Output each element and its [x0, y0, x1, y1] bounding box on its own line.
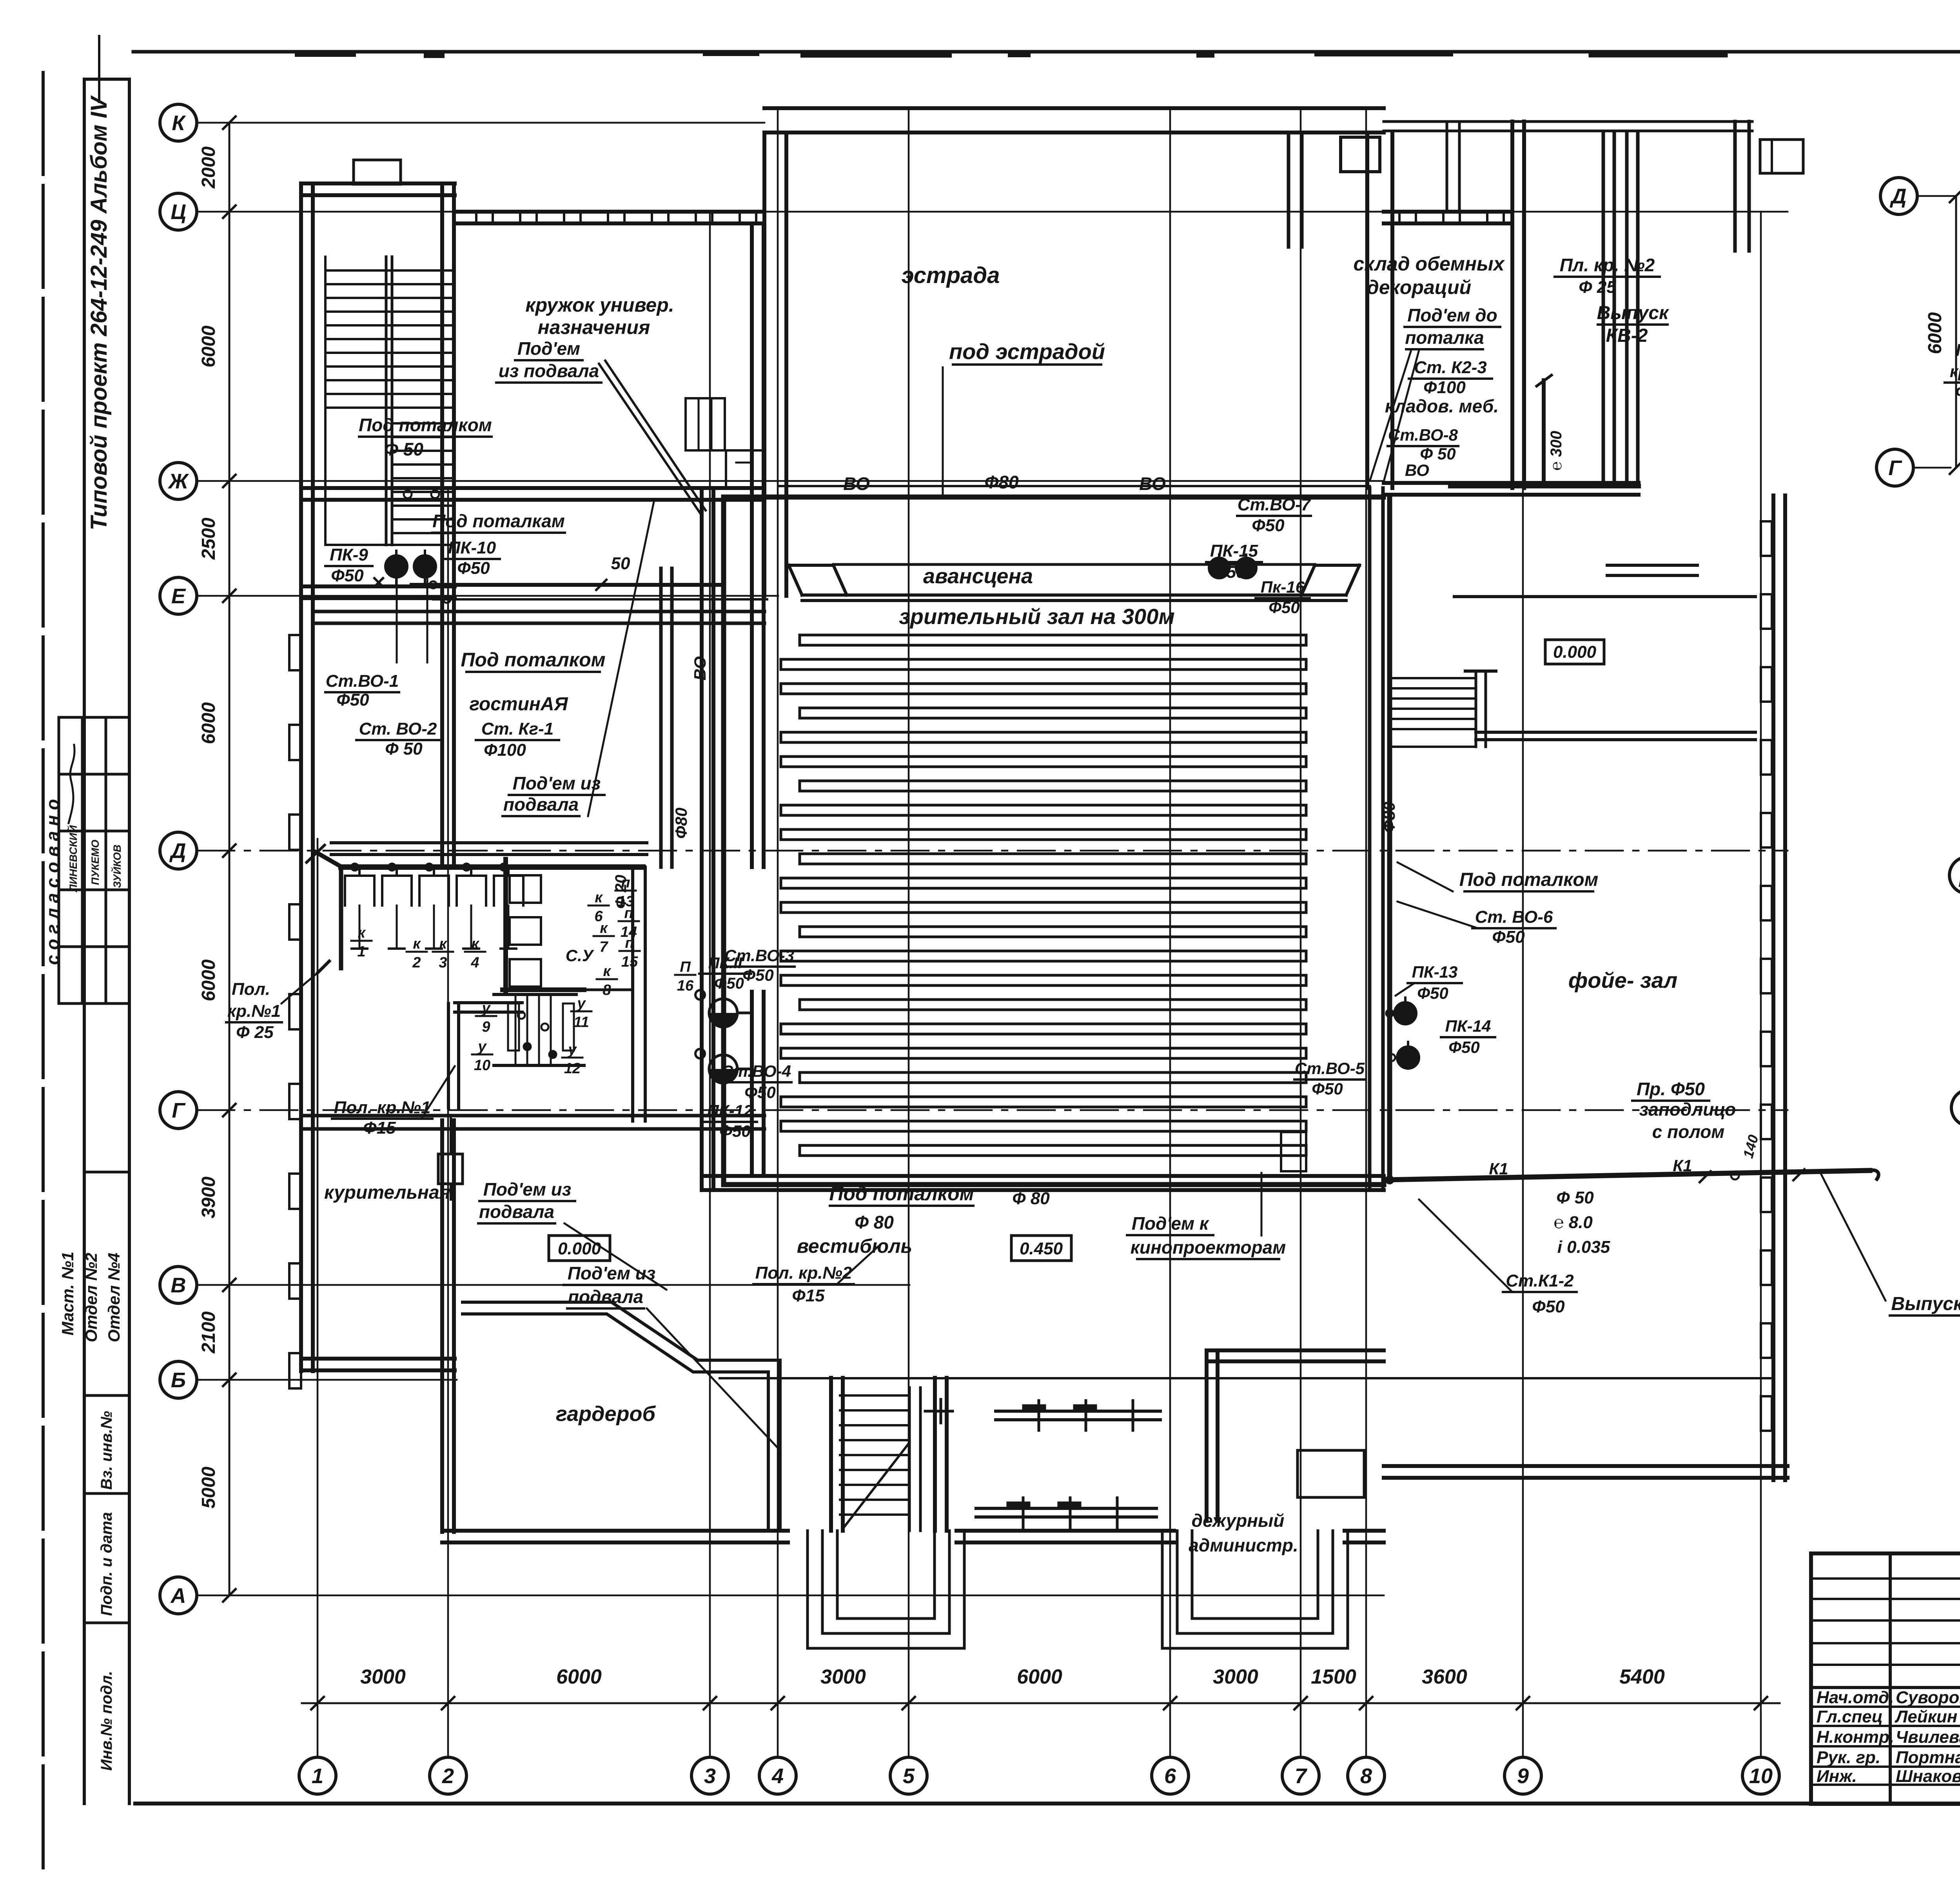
svg-text:Пк-16: Пк-16 [1261, 578, 1305, 596]
axis column 2 [430, 488, 466, 1794]
svg-text:8: 8 [1360, 1764, 1372, 1788]
left column rules [84, 79, 129, 1804]
label VO right [1139, 474, 1166, 494]
svg-text:Нач.отд.: Нач.отд. [1817, 1688, 1894, 1707]
svg-text:ПК-15: ПК-15 [1210, 541, 1258, 561]
svg-text:Выпуск К1-3: Выпуск К1-3 [1891, 1294, 1960, 1314]
avanscena front [789, 565, 1359, 601]
label PK-10 [444, 538, 500, 578]
svg-text:2000: 2000 [198, 146, 219, 189]
svg-text:4: 4 [470, 954, 479, 971]
label pod potolkom E [1397, 862, 1598, 891]
svg-text:курительная: курительная [324, 1182, 450, 1203]
svg-text:Д: Д [1959, 864, 1960, 887]
label 0450 box [1011, 1236, 1071, 1261]
svg-text:Ф15: Ф15 [363, 1118, 396, 1138]
svg-text:Ф 50: Ф 50 [384, 439, 423, 459]
svg-text:Ф100: Ф100 [1423, 378, 1466, 397]
label Pl kr N2 [1555, 255, 1660, 297]
svg-text:ПК-9: ПК-9 [330, 545, 368, 564]
label St Kg-1 [476, 719, 559, 760]
pipe stage riser [942, 367, 944, 497]
svg-text:Ст. ВО-2: Ст. ВО-2 [359, 719, 437, 739]
svg-text:КВ-2: КВ-2 [1606, 325, 1648, 346]
label Pol krN2 F15 [753, 1247, 878, 1305]
label St VO-7 [1237, 495, 1312, 535]
svg-text:гостинАЯ: гостинАЯ [469, 694, 568, 715]
svg-text:кинопроекторам: кинопроекторам [1131, 1237, 1286, 1257]
frac u10 W [472, 1038, 492, 1074]
svg-text:Ст.К1-2: Ст.К1-2 [1506, 1271, 1574, 1290]
svg-text:к: к [471, 936, 479, 952]
svg-text:склад обемных: склад обемных [1353, 253, 1505, 275]
svg-text:Под поталком: Под поталком [829, 1183, 974, 1205]
svg-text:Под'ем из: Под'ем из [513, 773, 601, 793]
svg-text:3600: 3600 [1422, 1666, 1467, 1688]
pipe zal right vertical [1387, 497, 1392, 1181]
svg-text:Вз. инв.№: Вз. инв.№ [98, 1411, 115, 1490]
sheet bottom border [135, 1802, 1960, 1805]
svg-text:9: 9 [1517, 1764, 1529, 1788]
club room bench [686, 398, 763, 488]
axis column 10 [1742, 212, 1779, 1794]
svg-text:6: 6 [1164, 1764, 1176, 1788]
svg-text:Суворов: Суворов [1896, 1688, 1960, 1707]
svg-text:Отдел №2: Отдел №2 [82, 1253, 100, 1343]
label pod estradoj [949, 339, 1105, 365]
label avanscena [923, 564, 1033, 588]
svg-text:3900: 3900 [198, 1176, 219, 1218]
svg-text:Ст.ВО-8: Ст.ВО-8 [1388, 426, 1458, 444]
vestibule stair block [720, 1378, 1772, 1531]
svg-text:у: у [477, 1038, 487, 1055]
svg-text:i 0.035: i 0.035 [1557, 1238, 1610, 1257]
svg-text:Под поталком: Под поталком [1459, 869, 1598, 890]
left dimension line [223, 116, 236, 1602]
svg-text:к: к [595, 889, 603, 906]
wall stage top [764, 108, 1384, 132]
label St VO-4 [721, 1062, 791, 1101]
sheet left edge [42, 73, 45, 1870]
svg-text:Ст. Кг-1: Ст. Кг-1 [481, 719, 554, 739]
svg-text:8: 8 [603, 982, 611, 998]
label e300 rot [1548, 431, 1565, 471]
svg-text:1500: 1500 [1311, 1666, 1356, 1688]
wall NE inner vertical [1603, 133, 1638, 483]
svg-text:Чвилева: Чвилева [1896, 1727, 1960, 1747]
left stamp departments [58, 1172, 129, 1395]
pipe bottom horizontal F80 [724, 1182, 1384, 1187]
svg-text:подвала: подвала [479, 1201, 554, 1222]
svg-text:Ф50: Ф50 [1448, 1038, 1480, 1056]
svg-text:Инв.№ подл.: Инв.№ подл. [98, 1671, 115, 1771]
svg-text:5000: 5000 [198, 1466, 219, 1508]
axis column 3 [691, 212, 728, 1794]
G axis radiator [438, 1117, 463, 1199]
svg-text:п: п [621, 875, 630, 891]
svg-text:Отдел №4: Отдел №4 [105, 1253, 123, 1343]
svg-text:К1: К1 [1489, 1159, 1508, 1178]
svg-text:ПК-14: ПК-14 [1445, 1017, 1491, 1035]
label St VO-3 [724, 946, 795, 984]
zal bottom wall [702, 1176, 1384, 1190]
svg-text:К1: К1 [1673, 1156, 1692, 1175]
wall sklad partition [1447, 122, 1459, 212]
svg-text:Пол. кр.№1: Пол. кр.№1 [334, 1098, 431, 1117]
frac p14 W [619, 905, 639, 940]
svg-text:Ст. ВО-6: Ст. ВО-6 [1475, 907, 1553, 927]
label zero box S [549, 1236, 610, 1261]
svg-text:ЗУЙКОВ: ЗУЙКОВ [111, 845, 123, 888]
sanitary stalls row [345, 867, 523, 949]
svg-text:Д: Д [169, 839, 186, 863]
axis row Е [160, 577, 778, 614]
svg-text:℮ 8.0: ℮ 8.0 [1553, 1213, 1593, 1232]
pipe VO main horizontal [724, 497, 1383, 585]
svg-text:5400: 5400 [1619, 1666, 1665, 1688]
frac k7 W [593, 920, 614, 955]
svg-text:Ф 25: Ф 25 [236, 1023, 274, 1042]
svg-text:Ц: Ц [171, 200, 186, 224]
svg-text:Выпуск: Выпуск [1597, 303, 1670, 323]
wall club room right [752, 224, 764, 1176]
svg-text:Б: Б [171, 1368, 186, 1392]
label vypusk KV-2 [1597, 303, 1670, 355]
svg-text:из подвала: из подвала [499, 361, 599, 381]
admin desk [1298, 1450, 1364, 1497]
svg-text:Гл.спец: Гл.спец [1817, 1707, 1883, 1726]
left stamp vz inv [84, 1411, 129, 1493]
label PK-9 [325, 545, 372, 585]
svg-text:эстрада: эстрада [902, 263, 1000, 288]
wall NE bottom [1384, 483, 1697, 575]
svg-text:Ф50: Ф50 [1213, 563, 1246, 582]
svg-text:Ф80: Ф80 [672, 807, 690, 839]
heater PK-12 [695, 1049, 750, 1083]
axis column 8 [1348, 108, 1385, 1794]
approval stamp table [59, 717, 129, 1003]
svg-text:Ф 50: Ф 50 [385, 739, 423, 758]
svg-text:6000: 6000 [198, 959, 219, 1001]
sanitary inner stalls [510, 875, 541, 987]
label St VO-5 [1294, 1059, 1365, 1098]
vestibule stair treads [840, 1395, 909, 1529]
svg-text:кр.№1: кр.№1 [227, 1002, 281, 1021]
entrance porch east [1162, 1531, 1348, 1648]
frac u11 W [571, 995, 592, 1031]
detail1 axis D [1880, 178, 1960, 214]
label K1 a [1489, 1159, 1508, 1178]
label gostinaya [469, 694, 568, 715]
wall foyer right pilasters [1761, 495, 1785, 1480]
svg-text:ПК-12: ПК-12 [707, 1101, 753, 1120]
svg-text:Д: Д [1890, 185, 1907, 208]
detail1 label Pol krN1 F25 [1945, 310, 1960, 401]
axis row К [160, 104, 764, 141]
svg-text:12: 12 [564, 1060, 581, 1077]
label kuritelnaya [324, 1182, 450, 1203]
svg-text:ВО: ВО [1139, 474, 1166, 494]
label St VO-8 [1388, 426, 1458, 479]
heater PK-11 [695, 990, 750, 1027]
label PK-16 [1256, 578, 1310, 617]
svg-text:Ф50: Ф50 [1532, 1297, 1565, 1316]
svg-text:Ф50: Ф50 [714, 975, 744, 992]
axis row Ц [160, 193, 1788, 230]
svg-text:Инж.: Инж. [1817, 1767, 1857, 1786]
pipe PK-9 PK-10 group [374, 551, 767, 662]
axis column 5 [890, 108, 927, 1794]
svg-text:Ф50: Ф50 [1269, 598, 1300, 617]
label Pr F50 E [1632, 1079, 1736, 1142]
svg-text:Под поталком: Под поталком [461, 649, 605, 671]
frac k4 W [465, 936, 485, 971]
svg-text:7: 7 [1295, 1764, 1308, 1788]
svg-text:Пол.: Пол. [232, 980, 270, 999]
axis row Б [160, 1361, 457, 1398]
svg-text:Ф 50: Ф 50 [1556, 1188, 1594, 1207]
sheet top border [133, 52, 1960, 54]
svg-text:Ф50: Ф50 [457, 559, 490, 578]
label St VO-6 [1397, 902, 1555, 947]
svg-text:кр.N1: кр.N1 [1950, 362, 1960, 381]
title names [1817, 1688, 1960, 1786]
label PK-15 [1206, 541, 1262, 582]
svg-text:А: А [170, 1584, 186, 1608]
wall stairwell NW [301, 183, 455, 599]
svg-text:Г: Г [1888, 456, 1902, 480]
label podem do potolka [1370, 305, 1500, 481]
u-fixtures cluster [494, 994, 584, 1065]
svg-text:п: п [625, 935, 634, 951]
svg-text:Ф50: Ф50 [742, 966, 774, 984]
svg-text:0.450: 0.450 [1020, 1239, 1063, 1258]
svg-text:администр.: администр. [1189, 1535, 1298, 1555]
svg-text:Рук. гр.: Рук. гр. [1817, 1748, 1880, 1767]
axis row Д [160, 832, 1788, 869]
svg-text:3000: 3000 [360, 1666, 406, 1688]
frac p15 W [619, 935, 640, 970]
svg-text:Ф80: Ф80 [1380, 802, 1398, 833]
svg-text:Портная: Портная [1896, 1748, 1960, 1767]
label F80 stage [984, 472, 1018, 492]
svg-text:Ф50: Ф50 [331, 566, 364, 585]
frac k2 W [407, 936, 427, 971]
label F80 rot W [672, 807, 690, 839]
svg-text:фойе- зал: фойе- зал [1568, 968, 1678, 993]
svg-text:ЛИНЕВСКИЙ: ЛИНЕВСКИЙ [67, 825, 79, 893]
svg-text:ВО: ВО [1405, 461, 1429, 479]
svg-text:140: 140 [1740, 1133, 1761, 1160]
axis row В [160, 1267, 909, 1303]
svg-text:зрительный зал на 300м: зрительный зал на 300м [899, 604, 1175, 629]
svg-text:6000: 6000 [198, 325, 219, 367]
bottom dimension numbers [360, 1666, 1665, 1688]
svg-text:3000: 3000 [820, 1666, 866, 1688]
turnstiles row 1 [996, 1401, 1160, 1430]
wall zal left [702, 488, 713, 1190]
svg-text:с полом: с полом [1652, 1121, 1725, 1142]
svg-text:Н.контр.: Н.контр. [1817, 1727, 1894, 1747]
svg-text:у: у [576, 995, 586, 1012]
svg-text:ВО: ВО [843, 474, 870, 494]
svg-text:10: 10 [1749, 1764, 1773, 1788]
frac k8 W [597, 963, 617, 998]
svg-text:у: у [481, 1000, 491, 1016]
svg-text:Е: Е [171, 584, 186, 608]
label K1 b [1673, 1156, 1692, 1175]
svg-text:Ст.ВО-1: Ст.ВО-1 [326, 671, 399, 691]
svg-text:Типовой проект 264-12-249 А: Типовой проект 264-12-249 Альбом IV [86, 95, 112, 530]
svg-text:Ст.ВО-3: Ст.ВО-3 [724, 946, 794, 965]
svg-text:К: К [172, 111, 186, 135]
left stamp inv podl [98, 1671, 115, 1771]
svg-text:заподлицо: заподлицо [1639, 1099, 1736, 1120]
title block grid left [1811, 1553, 1960, 1804]
fixtures PK-15 group [1209, 555, 1256, 578]
svg-text:назначения: назначения [538, 316, 650, 338]
svg-text:Ст.ВО-4: Ст.ВО-4 [721, 1062, 791, 1080]
svg-text:П: П [680, 959, 691, 975]
detail1 axis G [1877, 449, 1960, 486]
svg-text:Подп. и дата: Подп. и дата [98, 1512, 115, 1616]
svg-text:6000: 6000 [556, 1666, 602, 1688]
label F80 pipe S [1012, 1189, 1050, 1208]
svg-text:к: к [603, 963, 611, 980]
svg-text:2100: 2100 [198, 1311, 219, 1354]
svg-text:ВО: ВО [691, 656, 709, 680]
label podem iz podvala W [503, 502, 654, 816]
wall stage left [764, 132, 786, 596]
label podem iz podvala NW [496, 338, 706, 514]
svg-text:15: 15 [621, 954, 638, 970]
sanitary north wall [331, 843, 647, 855]
sanitary su room walls [503, 859, 645, 1121]
label estrada [902, 263, 1000, 288]
svg-text:7: 7 [599, 939, 608, 955]
svg-text:5: 5 [903, 1764, 915, 1788]
svg-text:6000: 6000 [198, 702, 219, 744]
svg-text:50: 50 [611, 554, 630, 573]
svg-text:Ст.ВО-5: Ст.ВО-5 [1295, 1059, 1365, 1078]
svg-text:Ф50: Ф50 [336, 690, 369, 709]
wall NE right [1735, 122, 1749, 251]
svg-text:кружок универ.: кружок универ. [525, 294, 674, 316]
svg-text:Пл. кр. №2: Пл. кр. №2 [1560, 255, 1655, 275]
svg-text:0.000: 0.000 [1553, 642, 1597, 662]
label foye zal [1568, 968, 1678, 993]
axis row Ж [160, 463, 1384, 499]
svg-text:4: 4 [771, 1764, 784, 1788]
svg-text:2: 2 [442, 1764, 454, 1788]
label F80 rot E2 [1380, 802, 1398, 833]
wall along axis Zh [301, 488, 764, 500]
svg-text:Под поталкам: Под поталкам [432, 511, 565, 531]
svg-text:3: 3 [704, 1764, 716, 1788]
wall kuritelnaya top [301, 1116, 764, 1129]
svg-text:гардероб: гардероб [556, 1402, 656, 1426]
rotated sheet title [86, 36, 112, 530]
label PK-13 [1396, 963, 1462, 1002]
svg-text:10: 10 [474, 1057, 490, 1074]
label VO left [843, 474, 870, 494]
sanitary heavy wall pipe [307, 845, 643, 968]
label kruzhok [525, 294, 674, 338]
label sklad [1353, 253, 1505, 298]
svg-text:2500: 2500 [198, 517, 219, 560]
label pod potolkom S [797, 1183, 974, 1257]
south wall segments [442, 1531, 1384, 1542]
svg-text:Ф 80: Ф 80 [855, 1212, 894, 1232]
zal projection booth [1281, 1132, 1306, 1171]
svg-text:Маcт. №1: Маcт. №1 [58, 1252, 77, 1335]
label garderob [556, 1402, 656, 1426]
wardrobe counter [463, 1302, 780, 1531]
svg-text:к: к [600, 920, 608, 936]
svg-text:9: 9 [482, 1019, 490, 1035]
label 140 rot [1740, 1133, 1761, 1160]
svg-text:Ф50: Ф50 [1252, 516, 1285, 535]
left stamp podp data [84, 1512, 129, 1623]
wall zal right [1367, 132, 1392, 1190]
foyer zero level box [1545, 640, 1604, 664]
avanscena north edge [779, 486, 1370, 564]
label podem iz podvala S1 [478, 1179, 575, 1223]
label vypusk K1-3 [1821, 1174, 1960, 1316]
svg-text:Ф 25: Ф 25 [1579, 278, 1616, 297]
stage pier [1289, 132, 1380, 247]
label 50 [611, 554, 630, 573]
zal seat rows [781, 635, 1306, 1156]
label Pol krN1 F15 [332, 1066, 455, 1138]
label pod potolkam 2 [432, 511, 565, 533]
detail2 axis G [1951, 1089, 1960, 1126]
wall sklad top brick [1384, 212, 1512, 224]
turnstiles row 2 [976, 1498, 1156, 1528]
svg-text:1: 1 [312, 1764, 323, 1788]
label podem iz podvala S2 [564, 1223, 780, 1450]
svg-text:Шнакова: Шнакова [1896, 1767, 1960, 1786]
svg-text:Ж: Ж [167, 470, 189, 493]
frac u9 W [476, 1000, 496, 1035]
svg-text:ПК-13: ПК-13 [1412, 963, 1458, 981]
label dezhurnyj [1189, 1510, 1298, 1555]
foyer stair landing wall [1454, 597, 1755, 740]
svg-text:декораций: декораций [1367, 276, 1471, 298]
label St K2-3 [1409, 358, 1492, 397]
detail1 dim 6000 [1925, 190, 1960, 474]
svg-text:3: 3 [439, 954, 447, 971]
wall corridor west [442, 501, 672, 1108]
svg-text:дежурный: дежурный [1192, 1510, 1285, 1531]
svg-text:к: к [358, 925, 366, 941]
frac k3 W [433, 936, 453, 971]
label F50 K1 [1553, 1188, 1610, 1257]
svg-text:6000: 6000 [1925, 312, 1945, 354]
svg-text:Под'ем до: Под'ем до [1407, 305, 1497, 325]
frac p16 W [675, 959, 695, 994]
axis column 1 [299, 839, 336, 1794]
svg-text:к: к [413, 936, 421, 952]
entrance porch west [808, 1531, 964, 1648]
label PK-14 [1441, 1017, 1495, 1056]
svg-text:Ф25: Ф25 [1955, 383, 1960, 401]
svg-text:под эстрадой: под эстрадой [949, 339, 1105, 364]
axis row Г [160, 1092, 1788, 1129]
svg-text:2: 2 [412, 954, 421, 971]
axis column 4 [759, 108, 796, 1794]
svg-text:кладов. меб.: кладов. меб. [1385, 396, 1499, 416]
